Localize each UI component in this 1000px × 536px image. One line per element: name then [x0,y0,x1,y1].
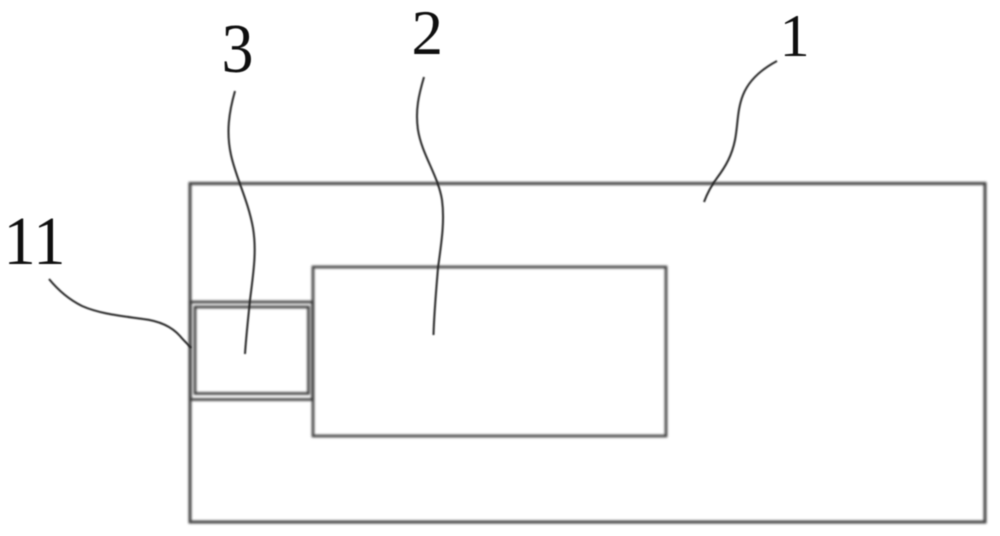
svg-text:1: 1 [780,3,810,69]
svg-text:2: 2 [412,0,444,68]
svg-text:3: 3 [222,11,254,88]
svg-text:11: 11 [4,203,66,279]
